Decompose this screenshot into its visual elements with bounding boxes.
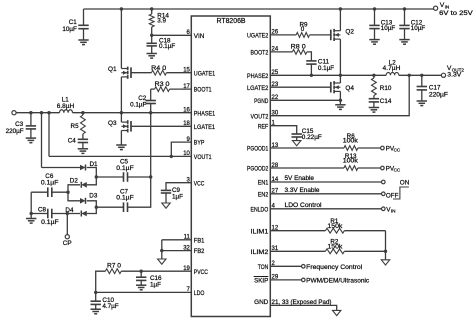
ground for C12	[399, 39, 409, 41]
svg-text:C8: C8	[38, 206, 47, 213]
junction ILIM2	[384, 250, 387, 253]
capacitor C17 220uF output2	[420, 74, 423, 77]
svg-text:ILIM2: ILIM2	[251, 249, 269, 256]
svg-text:FB1: FB1	[194, 237, 205, 244]
wire ILIM bracket	[385, 231, 387, 260]
svg-text:3.3V: 3.3V	[447, 72, 462, 79]
capacitor C6 0.1uF	[31, 191, 48, 193]
terminal VOUT2	[441, 73, 445, 77]
ground for GND pad	[333, 310, 341, 315]
svg-text:10µF: 10µF	[411, 25, 426, 32]
ground for C17	[417, 100, 427, 102]
junction rail to R14	[150, 7, 153, 10]
svg-text:ILIM1: ILIM1	[251, 228, 269, 235]
svg-text:REF: REF	[258, 123, 269, 130]
diode D3	[80, 198, 86, 204]
wire SKIP pin 29	[270, 279, 301, 281]
junction D4 CP	[66, 212, 69, 215]
resistor R14 3.9	[151, 9, 153, 14]
svg-text:0.1µF: 0.1µF	[41, 219, 59, 226]
svg-text:3.9: 3.9	[157, 18, 166, 25]
svg-text:LGATE2: LGATE2	[247, 85, 269, 92]
node VIN supply rail	[84, 8, 434, 10]
transistor Q1 high-side MOSFET	[120, 9, 122, 69]
wire EN1 pin 14 5V Enable	[270, 181, 381, 183]
svg-text:ENLDO: ENLDO	[251, 206, 269, 213]
svg-text:C14: C14	[380, 98, 392, 105]
junction C11 PHASE2	[310, 74, 313, 77]
wire LGATE1 pin 18	[131, 125, 191, 127]
inductor L2 4.7uH	[386, 72, 399, 75]
ground for C4	[78, 148, 88, 150]
svg-text:1µF: 1µF	[150, 281, 161, 288]
resistor R13 100k pull-up	[270, 167, 344, 169]
svg-text:EN2: EN2	[258, 191, 269, 198]
svg-text:PGND: PGND	[254, 98, 268, 105]
svg-text:0.1µF: 0.1µF	[116, 195, 134, 202]
capacitor C16 1uF	[140, 270, 143, 273]
transistor Q2 high-side MOSFET 2	[334, 30, 340, 32]
terminal VOUT1 output	[12, 111, 16, 115]
ground for Q4 PGND	[339, 100, 341, 105]
wire TON pin 2	[270, 265, 301, 267]
capacitor C10 4.7uF	[95, 292, 97, 301]
op-amp U1 RT8206B controller IC body	[191, 16, 270, 317]
svg-text:220µF: 220µF	[429, 91, 448, 98]
resistor R5 snubber	[81, 111, 84, 114]
terminal PVcc 2	[381, 166, 385, 170]
wire VIN pin 6	[152, 34, 192, 36]
transistor Q3 low-side MOSFET	[120, 113, 122, 122]
svg-text:6.8µH: 6.8µH	[57, 103, 75, 110]
svg-text:LDO Control: LDO Control	[285, 202, 322, 209]
wire D3 cathode bracket	[87, 201, 97, 207]
junction Q4 source PGND	[339, 99, 342, 102]
junction C2 PHASE1	[149, 111, 152, 114]
svg-text:4.7µH: 4.7µH	[383, 65, 401, 72]
wire VOUT1 net drop	[47, 111, 50, 114]
junction C6 node	[66, 191, 69, 194]
ground for C18	[147, 53, 157, 55]
svg-text:R4 0: R4 0	[151, 65, 167, 72]
svg-text:TON: TON	[258, 264, 269, 271]
svg-text:CP: CP	[63, 240, 72, 247]
svg-text:1µF: 1µF	[172, 193, 183, 200]
svg-text:220µF: 220µF	[6, 128, 24, 135]
junction FB2	[160, 249, 163, 252]
svg-text:BOOT2: BOOT2	[251, 50, 269, 57]
wire PHASE1 to pin 16	[73, 112, 192, 114]
resistor R6 100k pull-up	[270, 147, 344, 149]
svg-text:R8 0: R8 0	[291, 43, 307, 50]
ground for C13	[369, 39, 379, 41]
capacitor C14 snubber2	[373, 96, 375, 99]
svg-text:R3 0: R3 0	[155, 81, 171, 88]
junction rail to Q1 drain	[120, 7, 123, 10]
junction D1 D2 C5 node	[95, 175, 98, 178]
wire D2 cathode to C6 bracket	[68, 185, 80, 201]
ground for C10	[91, 308, 101, 310]
terminal EN1	[382, 180, 386, 184]
ground for FB	[158, 259, 166, 264]
svg-text:VOUT2: VOUT2	[251, 113, 269, 120]
svg-text:IN: IN	[391, 209, 396, 214]
junction C5 phase column	[149, 175, 152, 178]
ground for ILIM	[381, 260, 389, 265]
svg-text:PHASE1: PHASE1	[194, 110, 216, 117]
svg-text:4.7µF: 4.7µF	[102, 303, 118, 310]
svg-text:5V Enable: 5V Enable	[285, 175, 315, 182]
terminal ENLDO VIN	[382, 207, 386, 211]
wire EN2 pin 27 3.3V Enable	[270, 193, 381, 195]
svg-text:D3: D3	[89, 192, 98, 199]
svg-text:Q3: Q3	[108, 120, 117, 127]
junction LDO R7 C10	[94, 291, 97, 294]
capacitor C15 0.22uF	[292, 133, 302, 135]
resistor R2 150k	[270, 250, 325, 252]
capacitor C18 0.1uF	[151, 35, 153, 43]
ground for C14	[369, 107, 379, 109]
svg-text:0.1µF: 0.1µF	[318, 65, 334, 72]
wire CP column	[66, 214, 68, 235]
wire REF pin 1	[270, 126, 296, 134]
wire LDO pin 7	[96, 291, 192, 293]
svg-text:R5: R5	[71, 123, 80, 130]
wire BYP pin 9 bracket	[171, 142, 191, 156]
svg-text:0: 0	[301, 26, 305, 33]
svg-text:0.1µF: 0.1µF	[116, 165, 134, 172]
switch ON OFF step	[393, 187, 409, 199]
wire D1 cathode bracket	[87, 168, 97, 178]
svg-text:C1: C1	[69, 19, 78, 26]
svg-text:ON: ON	[400, 180, 410, 187]
ground for C15	[293, 141, 301, 146]
svg-text:EN1: EN1	[258, 180, 269, 187]
resistor R3 0 boot	[151, 88, 155, 90]
diode D2	[81, 182, 87, 188]
svg-text:R7 0: R7 0	[107, 263, 122, 270]
capacitor C5 0.1uF flying	[96, 176, 123, 178]
svg-text:D2: D2	[70, 178, 79, 185]
wire D4 anode bracket	[87, 207, 97, 213]
svg-text:Frequency Control: Frequency Control	[306, 264, 362, 271]
svg-text:PGOOD2: PGOOD2	[247, 166, 269, 173]
svg-text:100k: 100k	[343, 138, 359, 145]
diode D4	[81, 211, 87, 217]
svg-text:VOUT1: VOUT1	[194, 154, 212, 161]
resistor R9 0 gate2	[270, 34, 296, 36]
junction C8 ground	[30, 212, 33, 215]
wire VOUT1 pin 10 and sense line	[171, 155, 191, 157]
capacitor C2 0.1uF bootstrap	[150, 89, 152, 100]
capacitor C4 snubber	[82, 134, 84, 139]
svg-text:Q4: Q4	[345, 85, 354, 92]
svg-text:150k: 150k	[327, 244, 343, 251]
svg-text:PGOOD1: PGOOD1	[247, 146, 269, 153]
wire D2 anode bracket	[87, 177, 97, 185]
resistor R10 snubber2	[372, 74, 375, 77]
svg-text:Q2: Q2	[345, 28, 354, 35]
svg-text:BYP: BYP	[194, 140, 205, 147]
junction R14 C18 VIN pin	[150, 34, 153, 37]
ground for C9	[162, 203, 170, 208]
capacitor C7 0.1uF flying	[96, 206, 123, 208]
svg-text:VIN: VIN	[194, 33, 205, 40]
capacitor C13 10uF input2	[373, 7, 376, 10]
resistor R8 0 boot2	[270, 51, 292, 53]
transistor Q4 low-side MOSFET 2	[334, 82, 340, 84]
diode D1	[80, 165, 86, 171]
capacitor C1 10uF input cap	[83, 9, 85, 25]
wire VOUT1 to D1	[40, 111, 43, 114]
wire PHASE2 pin 25	[270, 74, 386, 76]
wire PGND pin 22	[270, 99, 340, 101]
svg-text:0.22µF: 0.22µF	[302, 134, 322, 141]
svg-text:3.3V Enable: 3.3V Enable	[285, 187, 321, 194]
wire VOUT2 sense pin 30	[408, 74, 411, 77]
svg-text:10µF: 10µF	[62, 26, 77, 33]
ground for C6 C8	[26, 218, 36, 220]
wire VCC pin 3	[166, 183, 191, 191]
svg-text:PWM/DEM/Ultrasonic: PWM/DEM/Ultrasonic	[306, 277, 369, 284]
svg-text:6V to 25V: 6V to 25V	[439, 10, 474, 17]
wire UGATE1 pin 15	[166, 72, 191, 74]
terminal SKIP mode	[302, 278, 306, 282]
ground for Q3 source	[116, 144, 126, 146]
svg-text:0.1µF: 0.1µF	[41, 179, 59, 186]
svg-text:RT8206B: RT8206B	[217, 18, 246, 25]
wire BOOT1 pin 17	[170, 88, 192, 90]
junction PHASE1 Q3 drain	[120, 111, 123, 114]
wire VOUT1 to L1	[16, 112, 59, 114]
wire ENLDO pin 4 LDO Control	[270, 208, 381, 210]
resistor R4 0 gate	[131, 72, 151, 74]
wire phase column to charge pump	[150, 113, 152, 177]
terminal CP	[65, 235, 69, 239]
svg-text:PVCC: PVCC	[194, 269, 208, 276]
ground for C1	[78, 39, 88, 41]
svg-text:100k: 100k	[343, 158, 359, 165]
svg-text:C4: C4	[68, 138, 77, 145]
svg-text:FB2: FB2	[194, 248, 205, 255]
wire LGATE2 pin 23	[270, 86, 330, 88]
svg-text:Q1: Q1	[108, 66, 117, 73]
terminal EN2	[382, 192, 386, 196]
svg-text:SKIP: SKIP	[254, 278, 268, 285]
svg-text:PHASE2: PHASE2	[247, 73, 269, 80]
junction Q4 drain PHASE2	[339, 74, 342, 77]
svg-text:GND: GND	[254, 299, 269, 306]
svg-text:UGATE2: UGATE2	[247, 33, 269, 40]
svg-text:VCC: VCC	[194, 180, 205, 187]
inductor L1 6.8uH	[60, 110, 73, 113]
capacitor C12 10uF input3	[403, 7, 406, 10]
svg-text:CC: CC	[394, 168, 401, 173]
junction D3 D4 C7 node	[95, 206, 98, 209]
wire FB1 FB2 bracket	[162, 239, 192, 241]
svg-text:CC: CC	[394, 148, 401, 153]
svg-text:UGATE1: UGATE1	[194, 70, 216, 77]
wire PVCC pin 19	[121, 270, 191, 272]
wire GND exposed pad	[270, 305, 336, 310]
resistor R7 0	[105, 269, 121, 274]
terminal VIN	[434, 6, 438, 10]
capacitor C9 1uF	[161, 189, 171, 191]
svg-text:BOOT1: BOOT1	[194, 87, 212, 94]
ground for C3	[26, 137, 36, 139]
svg-text:0.1µF: 0.1µF	[159, 43, 175, 50]
capacitor C11 0.1uF bootstrap2	[306, 60, 316, 62]
svg-text:150k: 150k	[327, 223, 343, 230]
svg-text:LGATE1: LGATE1	[194, 124, 216, 131]
wire C6 left to ground column	[30, 192, 32, 213]
terminal PVcc 1	[381, 146, 385, 150]
junction Q2 drain rail	[339, 7, 342, 10]
ground for C16	[136, 284, 146, 286]
svg-text:0.1µF: 0.1µF	[130, 102, 146, 109]
svg-text:R10: R10	[380, 85, 392, 92]
terminal TON frequency control	[302, 265, 306, 269]
resistor R1 150k	[270, 230, 325, 232]
svg-text:LDO: LDO	[194, 290, 205, 297]
junction BYP VOUT1	[170, 155, 173, 158]
capacitor C8 0.1uF	[47, 209, 49, 219]
capacitor C3 220uF output cap	[29, 111, 32, 114]
svg-text:10µF: 10µF	[381, 25, 396, 32]
